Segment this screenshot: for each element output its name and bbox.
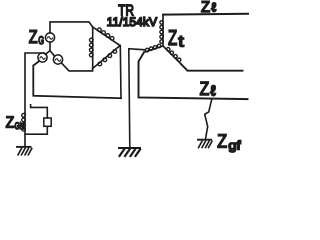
svg-text:t: t — [178, 33, 184, 50]
generator source V2 (phase b, AC circle) — [38, 53, 47, 62]
wire phase b bottom bus: left generator circle to delta right vertex — [33, 61, 121, 98]
wire phase a: generator top to delta top-left vertex — [50, 22, 93, 33]
svg-text:11/154kV: 11/154kV — [107, 15, 158, 29]
wire 154kV line 1 (top) — [163, 13, 248, 16]
ground (generator neutral) — [17, 147, 32, 155]
fault impedance Zgf (zigzag to ground) — [205, 99, 212, 138]
svg-text:Z: Z — [6, 115, 15, 132]
svg-text:Z: Z — [200, 79, 210, 100]
ground (fault point) — [198, 140, 212, 148]
wire wye neutral: center to left then down to ground — [129, 49, 145, 148]
resistor ZGN (box) and parallel branch wires — [25, 105, 51, 134]
generator source V1 (phase a, AC circle) — [45, 33, 54, 42]
wire generator neutral to ZGN — [25, 53, 44, 114]
generator source V3 (phase c, AC circle) — [53, 55, 62, 64]
label ZGN — [6, 115, 25, 133]
svg-text:ℓ: ℓ — [211, 1, 216, 15]
svg-text:Z: Z — [168, 26, 177, 50]
transformer TR delta winding W2 (top edge) — [93, 27, 120, 46]
transformer TR wye winding W4 (top phase, 154 kV) — [160, 15, 164, 46]
label Zl (line 1) — [201, 0, 216, 16]
ground (transformer wye neutral) — [119, 148, 140, 156]
wire phase c: generator right circle to delta bottom-left vertex — [61, 63, 92, 71]
svg-text:GN: GN — [15, 121, 25, 132]
transformer TR delta winding W1 (left edge, 11 kV) — [89, 27, 93, 69]
wire 154kV line 3 (faulted line) — [139, 52, 248, 99]
transformer TR wye winding W5 (down-left phase) — [144, 44, 163, 52]
wire generator star point junction — [45, 42, 54, 56]
transformer TR wye winding W6 (down-right phase) — [164, 47, 182, 65]
svg-text:Z: Z — [217, 131, 227, 152]
svg-text:ℓ: ℓ — [210, 83, 216, 99]
inductor ZGN (neutral grounding coil) — [22, 113, 26, 146]
svg-text:G: G — [38, 35, 44, 47]
wire 154kV line 2 (middle) — [181, 64, 243, 71]
label Zgf — [217, 131, 241, 152]
label Zt — [168, 26, 184, 50]
label ZG — [29, 26, 44, 47]
label Zl (line 3) — [200, 79, 216, 100]
svg-text:gf: gf — [228, 139, 241, 153]
svg-text:Z: Z — [29, 26, 38, 47]
wire delta right vertex drop — [119, 46, 122, 99]
svg-text:Z: Z — [201, 0, 210, 16]
transformer TR delta winding W3 (bottom edge) — [93, 46, 120, 69]
